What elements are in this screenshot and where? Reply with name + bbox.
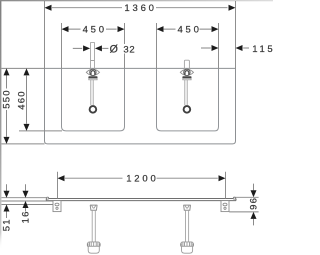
basin cutout left [62,68,125,130]
hanger rod right : rod [186,210,189,242]
page top border [0,0,273,1]
dimension 550 : extension lines [2,68,45,143]
drain left : collar [88,76,97,78]
drain right : horseshoe [185,71,189,75]
dimension 115 : leaders and arrows [201,47,249,49]
dimension 460 : extension line bottom [19,130,62,132]
svg-text:450: 450 [177,25,201,36]
dimension 1200 : line [65,177,218,179]
svg-text:1200: 1200 [126,174,158,185]
dimension 1360 : extension lines [45,1,236,68]
dimension 16 : stubs and arrows [25,184,27,211]
dimension 96 : reference lines [229,197,258,212]
dimension 450 left : arrows [62,26,69,32]
dimension 51 : stubs and arrows [6,184,8,218]
dimension 460 : line [26,76,28,124]
svg-text:550: 550 [1,89,12,108]
dimension 460 : arrows [24,68,30,75]
hanger rod right : foot cup [182,246,193,253]
drain right : outlet ring [184,106,191,113]
basin cutout right [157,68,219,130]
drain left : horseshoe [91,71,95,75]
mounting rail [46,199,236,201]
drain left : lower pipe [91,80,93,105]
dimension 450 right : extension lines [157,23,219,68]
console outline (plan view) [45,68,236,143]
drain right : overflow eye [180,69,193,75]
hanger rod right : head [183,205,190,210]
dimension 1200 : arrows [58,175,65,181]
hanger rod right : collar nut [181,242,193,246]
svg-text:450: 450 [83,25,107,36]
hanger rod left : collar nut [88,242,100,246]
dimension 450 right : arrows [157,26,164,32]
rail end cap left [46,197,48,199]
dimension 450 right : line [164,28,212,30]
dimension 450 left : line [69,28,117,30]
dimension 450 left : extension lines [62,23,125,68]
dimension 1360 : arrows [45,5,52,11]
dimension 1360 : line [52,7,228,9]
hanger rod left : foot cup [88,246,99,253]
wall bracket left [53,201,61,212]
wall bracket right [221,201,229,212]
dimension 1200 : extension lines [58,172,226,199]
svg-text:16: 16 [20,210,31,223]
page left border [0,0,1,250]
dimension diameter 32 : leaders [73,47,109,49]
dimension 550 : arrows [4,68,10,75]
svg-text:96: 96 [248,197,259,210]
hanger rod left : rod [92,210,95,242]
rail end cap right [233,197,235,199]
drain right : collar [182,76,191,78]
drain left : outlet ring [90,106,97,113]
drain left : overflow eye [86,69,99,75]
hanger rod left : head [90,205,97,210]
drain right : lower pipe [185,80,187,105]
svg-text:115: 115 [252,44,273,55]
drain fitting right : pipe [184,60,189,69]
svg-text:1360: 1360 [124,3,156,14]
dimension 96 : stubs and arrows [253,184,255,226]
drain left : circle [90,69,96,75]
svg-text:51: 51 [2,218,13,231]
svg-text:Ø32: Ø32 [110,44,136,56]
drain right : circle [184,69,190,75]
rail reference lines left [2,197,47,199]
dimension diameter 32 : arrows [83,45,90,51]
drain fitting left : pipe [91,42,95,69]
dimension 550 : line [6,75,8,137]
svg-text:460: 460 [16,90,27,109]
